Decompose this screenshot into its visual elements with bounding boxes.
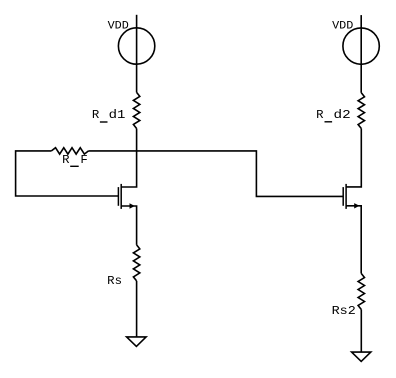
svg-text:R: R (316, 108, 324, 122)
svg-text:d2: d2 (334, 108, 351, 122)
svg-text:VDD: VDD (108, 21, 130, 33)
svg-text:F: F (80, 153, 87, 167)
svg-text:d1: d1 (109, 108, 126, 122)
svg-text:R: R (62, 153, 70, 167)
svg-text:VDD: VDD (332, 21, 354, 33)
svg-text:Rs2: Rs2 (332, 304, 356, 318)
svg-text:Rs: Rs (107, 274, 122, 288)
svg-text:R: R (92, 108, 100, 122)
